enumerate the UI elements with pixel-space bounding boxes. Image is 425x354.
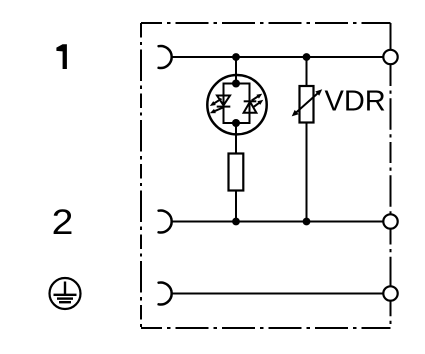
svg-text:2: 2 [52,203,74,242]
terminal 1 [383,50,397,64]
terminal 2 [383,214,397,228]
protective earth symbol [50,278,81,309]
wire node 1 [172,56,384,58]
varistor VDR arrow [292,89,323,116]
wire resistor to node 2 [235,191,237,222]
junction node 1 / LED branch [232,53,240,61]
svg-text:VDR: VDR [325,86,386,118]
LED pair loop [224,84,250,124]
LED D1 (left, cathode down) [217,96,231,107]
pin label 1 [56,44,67,69]
junction node 2 / LED branch [232,218,240,226]
wire LED lamp to resistor [235,124,237,154]
wire VDR to node 2 [306,123,308,222]
socket contact pin 2 [159,211,172,233]
enclosure outline right upper (solid run) [390,23,392,51]
enclosure outline top (dash-dot) [141,22,391,24]
junction node 1 / VDR branch [303,53,311,61]
junction loop top [232,80,240,88]
junction loop bottom [232,119,240,127]
enclosure outline left (dash-dot) [140,23,142,328]
LED D1 light arrows [210,99,224,114]
wire node1 to LED lamp [235,57,237,84]
enclosure outline right lower (dash-dot) [390,229,392,328]
junction node 2 / VDR branch [303,218,311,226]
enclosure outline bottom (dash-dot) [141,327,391,329]
wire node1 to VDR [306,57,308,86]
terminal PE [383,286,397,300]
varistor VDR body [300,86,314,123]
LED indicator lamp circle [207,75,266,134]
LED D2 light arrows [252,94,264,107]
resistor R1 [229,154,244,191]
wire node 2 [172,221,384,223]
wire PE [172,293,384,295]
LED D2 (right, cathode up) [244,101,257,113]
socket contact PE [159,282,172,304]
enclosure outline right mid (dash-dot) [390,65,392,215]
socket contact pin 1 [159,46,172,68]
